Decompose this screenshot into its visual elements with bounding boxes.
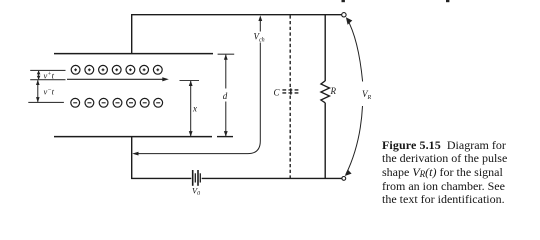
svg-text:d: d <box>223 91 228 101</box>
figure caption <box>382 139 522 206</box>
plus signs inside positive charges <box>74 68 159 71</box>
wire: left vertical from top wire down to upper plate <box>131 14 133 53</box>
dimension x tick <box>180 80 200 82</box>
left tick line 2 (initial track level) <box>30 79 65 81</box>
svg-text:VR: VR <box>362 89 372 101</box>
upper plate of ion chamber <box>54 53 213 55</box>
wire: top horizontal from chamber to output node <box>131 14 342 16</box>
svg-text:C: C <box>274 88 281 98</box>
wire: resistor upper lead <box>324 15 326 81</box>
dimension arrow v-t (between tick 2 and tick 3) <box>36 80 40 103</box>
wire: lower vertical from lower plate to bottom wire <box>131 137 133 179</box>
wire: bottom horizontal right of battery <box>202 177 342 179</box>
output node: bottom terminal circle <box>342 177 346 181</box>
svg-text:v−t: v−t <box>44 86 55 96</box>
wire: bottom horizontal left of battery <box>131 177 191 179</box>
dimension d tick <box>218 53 235 55</box>
capacitor C plates (dashed) <box>282 89 300 91</box>
minus signs inside negative charges <box>73 102 160 104</box>
lower plate of ion chamber <box>54 136 212 138</box>
particle track arrow <box>67 77 169 81</box>
bottom tick of d dimension <box>217 136 233 138</box>
voltage arrow VR: lower curve with arrowhead toward bottom node <box>345 106 363 176</box>
voltage arrow VR: upper curve with arrowhead toward top node <box>346 17 363 81</box>
dimension arrow d (lower segment) <box>224 102 228 137</box>
dimension arrow x <box>189 81 193 137</box>
capacitor C center connector dash <box>290 88 292 94</box>
svg-text:x: x <box>192 104 197 114</box>
stray capacitance dashed connection (lower) <box>289 96 291 178</box>
output node: top terminal circle <box>342 13 346 17</box>
svg-text:V0: V0 <box>192 186 200 197</box>
top page-edge text fragment 1 <box>342 0 345 2</box>
top page-edge text fragment 2 <box>446 0 449 2</box>
row of negative electron charges <box>71 98 163 107</box>
stray capacitance dashed connection (upper) <box>289 15 291 88</box>
dimension arrow v+t (between tick 1 and tick 2) <box>37 70 41 79</box>
dimension arrow d (upper segment) <box>224 54 228 88</box>
svg-text:v+t: v+t <box>44 71 55 81</box>
voltage arrow Vch: vertical line, corner arc and left arrowhead <box>132 43 260 156</box>
voltage arrow Vch: top arrowhead at top wire <box>258 15 262 31</box>
svg-text:R: R <box>330 86 337 96</box>
left tick line 1 (origin of positive charges) <box>30 69 65 71</box>
left tick line 3 (origin of negative charges) <box>28 101 64 103</box>
row of positive ion charges <box>71 65 162 74</box>
svg-text:Vch: Vch <box>254 32 265 44</box>
resistor R zigzag <box>321 81 330 103</box>
battery V0 <box>193 170 201 186</box>
wire: resistor lower lead <box>324 103 326 179</box>
